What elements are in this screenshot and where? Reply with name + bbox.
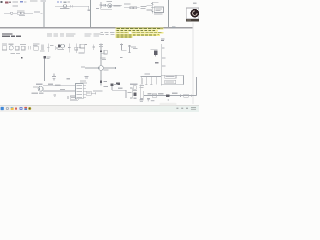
resistor R11 (104, 50, 107, 54)
diode D2 (116, 82, 120, 85)
yellow highlight annotation line 2 (115, 30, 158, 32)
capacitor C7 (55, 46, 57, 50)
value label (64, 2, 67, 4)
value label (158, 93, 163, 94)
resistor R14 (86, 91, 91, 95)
node L (190, 94, 192, 96)
value label (17, 10, 24, 11)
wire (long vertical net) (100, 44, 102, 86)
transistor Q4 (9, 46, 13, 50)
node B (blue ref text) (20, 1, 23, 3)
value label SM2-18 (12, 5, 18, 6)
value label (33, 86, 38, 87)
wire (145, 77, 147, 85)
value label (127, 92, 131, 93)
yellow highlight annotation line 3 (115, 32, 129, 34)
wire (124, 7, 140, 9)
resistor R3 (130, 7, 133, 9)
wire (101, 8, 112, 10)
capacitor C5 (40, 45, 42, 51)
wire (161, 84, 183, 86)
wire (13, 12, 17, 14)
pin 2 (83, 87, 86, 89)
logo frame (186, 8, 199, 19)
resistor R7 (21, 46, 25, 50)
wire (152, 1, 158, 3)
capacitor C1 (70, 5, 72, 8)
wire (43, 90, 75, 92)
value label (193, 2, 197, 4)
value label (141, 6, 147, 7)
capacitor C3 (103, 4, 105, 6)
resistor R10 (80, 44, 85, 48)
value label (mid-right note) (155, 62, 158, 63)
value label (154, 14, 162, 15)
transistor Q6 (38, 86, 43, 91)
tray icon 3 (186, 108, 188, 109)
title block text row 1 (2, 33, 12, 34)
value label (151, 100, 155, 101)
logo emblem (191, 9, 200, 18)
value label (80, 81, 86, 82)
wire (connector bus) (151, 2, 153, 13)
wire (101, 53, 107, 55)
value label (66, 78, 70, 79)
yellow highlight annotation line 1 (115, 28, 163, 30)
value label (11, 53, 16, 54)
resistor R13 (70, 96, 76, 99)
wire (161, 74, 183, 76)
resistor R17 (152, 94, 157, 97)
ground (87, 10, 89, 12)
node D (tick on border) (172, 26, 176, 28)
node I (162, 47, 165, 48)
value label (below bus) (139, 99, 143, 100)
node H (115, 67, 116, 69)
widget above taskbar (160, 103, 177, 106)
value label (parts table row 1) (47, 33, 52, 34)
taskbar icon olive app (28, 107, 31, 110)
transistor Q3 (108, 4, 112, 8)
wire (window page edge, faint) (192, 23, 194, 105)
resistor R1 (17, 12, 20, 14)
value label (note under highlight) (161, 38, 165, 39)
relay K1 (58, 44, 61, 47)
wire (91, 92, 95, 94)
value label (133, 90, 137, 91)
value label (118, 88, 123, 89)
resistor R4 (134, 7, 137, 9)
wire (44, 59, 46, 81)
ground (140, 98, 143, 100)
value label (99, 43, 103, 46)
value label (81, 66, 85, 67)
ground (134, 98, 137, 100)
value label (60, 89, 65, 90)
wire (121, 49, 126, 51)
tray clock (191, 106, 196, 109)
value label (gray header text) (12, 1, 17, 2)
value label (107, 1, 113, 2)
capacitor C6 (47, 44, 49, 53)
value label (130, 84, 137, 85)
pin 3 (83, 90, 86, 92)
diode D1 (44, 56, 46, 59)
value label (124, 3, 130, 4)
taskbar (0, 105, 199, 112)
op-amp U1 (IC block) (76, 84, 84, 99)
capacitor C13 (140, 77, 142, 85)
node N (167, 99, 169, 101)
value label (parts table row 2) (47, 35, 52, 36)
capacitor C14 (53, 94, 56, 96)
wire (43, 85, 75, 87)
wire (4, 12, 10, 14)
wire (79, 48, 85, 53)
resistor R6 (15, 46, 19, 50)
node P (dark junction on net) (100, 81, 102, 84)
capacitor C9 (120, 44, 122, 51)
yellow highlight annotation line 5 (115, 36, 132, 38)
wire (page divider vertical) (43, 2, 45, 28)
resistor R9 (75, 44, 77, 53)
transistor Q2 (63, 5, 66, 8)
value label (104, 69, 109, 70)
node Q (tick) (120, 57, 122, 58)
node C (blue ref text) (57, 2, 59, 3)
taskbar icon explorer (11, 107, 14, 110)
diode D3 (110, 84, 113, 87)
value label (36, 84, 42, 85)
node J (95, 92, 97, 94)
wire (100, 5, 102, 9)
wire (page bottom border) (0, 27, 193, 29)
wire (40, 12, 42, 14)
value label (114, 6, 121, 7)
yellow highlight annotation line 4 (115, 34, 160, 36)
wire (25, 12, 33, 14)
value label SM5-78 (60, 8, 70, 9)
wire (146, 5, 152, 7)
transistor Q1 (10, 12, 12, 14)
taskbar start button (1, 107, 4, 110)
value label header (30, 1, 38, 2)
node K (179, 94, 181, 96)
wire (146, 9, 152, 11)
resistor R18 (184, 94, 188, 97)
capacitor C10 (128, 45, 130, 53)
value label (131, 47, 136, 48)
capacitor C15 (66, 96, 68, 99)
node A (title mark top-left) (1, 1, 3, 3)
taskbar icon search (6, 107, 9, 110)
wire (right bus vertical) (160, 44, 162, 85)
value label (red stamp) (5, 2, 9, 4)
capacitor C8 (68, 44, 70, 53)
value label (172, 93, 178, 94)
capacitor C17 (93, 45, 95, 51)
node E (85, 44, 86, 45)
wire (85, 67, 115, 69)
wire (101, 4, 122, 6)
value label (net note) (85, 76, 89, 77)
value label (31, 93, 38, 94)
wire (196, 77, 198, 96)
tray icon 2 (181, 108, 183, 109)
node F (100, 51, 102, 53)
title block text row 2 (2, 36, 10, 37)
value label (19, 15, 25, 16)
resistor R5 (2, 46, 7, 50)
wire (125, 90, 127, 98)
resistor R16 (133, 92, 136, 96)
resistor R2 (21, 12, 24, 14)
connector J1 (154, 7, 163, 12)
pin 4 (83, 93, 86, 95)
taskbar icon blue app (20, 107, 23, 110)
wire (112, 89, 126, 91)
value label (114, 84, 118, 85)
taskbar icon paint (24, 107, 27, 109)
pin 1 (83, 84, 86, 86)
taskbar icon red app (15, 108, 17, 110)
wire (77, 84, 79, 100)
wire (page divider vertical) (89, 0, 91, 28)
wire (155, 77, 157, 85)
ground (145, 84, 148, 86)
wire (ladder top) (140, 76, 161, 78)
diode D4 (166, 95, 169, 97)
value label (right of divider) (96, 8, 99, 9)
pin hatches (151, 3, 154, 4)
wire (55, 5, 89, 7)
value label (48, 84, 53, 85)
value label (left of highlight) (101, 32, 104, 33)
tray icon 1 (176, 108, 178, 109)
wire (output bus) (144, 95, 197, 97)
pin 5 (83, 96, 86, 98)
value label (100, 57, 106, 58)
wire (151, 49, 158, 51)
resistor R15 (133, 86, 136, 89)
wire (70, 99, 78, 101)
node M (147, 99, 149, 101)
wire (88, 6, 90, 9)
transistor Q5 (99, 66, 104, 71)
capacitor C4 (27, 46, 29, 50)
capacitor C11 (polarized) (154, 51, 158, 55)
wire (page divider vertical) (168, 0, 170, 28)
value label (ladder) (145, 74, 150, 75)
capacitor C12 (53, 74, 55, 77)
wire (150, 77, 152, 85)
wire (bracket) (130, 88, 133, 98)
value label (34, 12, 40, 13)
value label (147, 93, 151, 94)
resistor R8 (34, 46, 39, 50)
wire (111, 86, 113, 90)
logo bar (186, 19, 199, 22)
capacitor C16 (140, 85, 142, 99)
node G (21, 57, 23, 59)
resistor R12 (165, 80, 176, 83)
wire (183, 75, 185, 84)
value label (165, 75, 176, 78)
value label (93, 90, 103, 91)
capacitor C2 (100, 2, 102, 8)
page background (0, 0, 199, 112)
